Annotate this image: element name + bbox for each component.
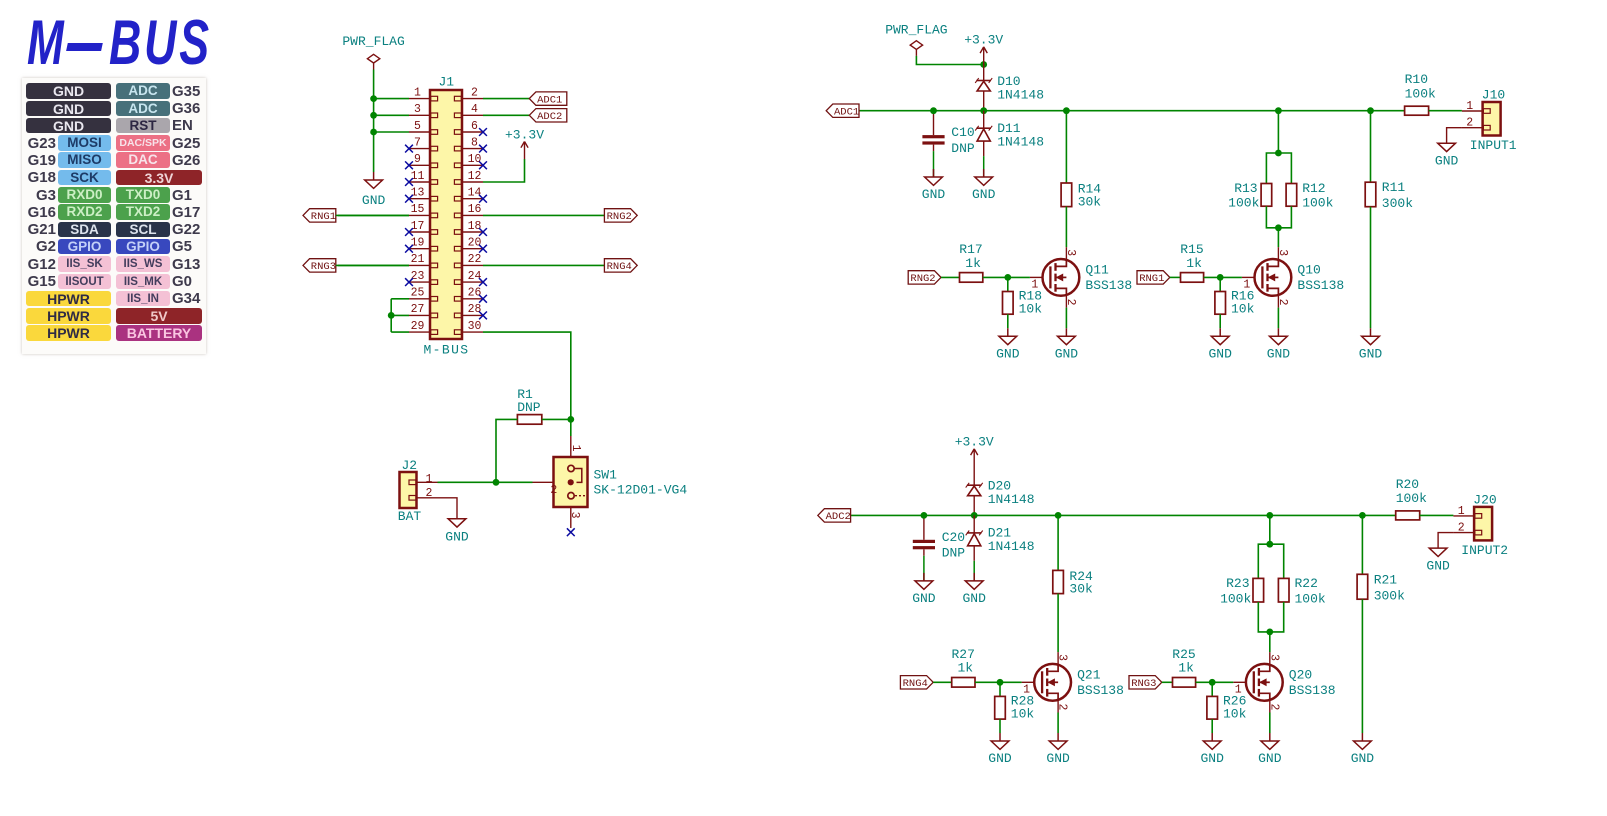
svg-text:8: 8 [471, 136, 478, 149]
power flag PWR_FLAG (ADC1 rail) [885, 22, 947, 56]
svg-text:10k: 10k [1019, 302, 1043, 317]
svg-text:3: 3 [1276, 249, 1289, 256]
transistor Q11 BSS138 [1030, 247, 1132, 307]
J1 pin 23 [409, 270, 438, 285]
resistor R15 1k [1170, 242, 1220, 282]
global label RNG4 [900, 676, 933, 690]
svg-text:GND: GND [1359, 347, 1383, 362]
svg-text:1N4148: 1N4148 [988, 492, 1035, 507]
svg-text:R21: R21 [1374, 572, 1398, 587]
svg-text:+3.3V: +3.3V [955, 434, 994, 449]
ground GND (R11) [1359, 328, 1383, 361]
svg-text:R11: R11 [1382, 180, 1406, 195]
ground GND (Q11 source) [1055, 328, 1079, 361]
svg-text:+3.3V: +3.3V [964, 32, 1003, 47]
wire J1 pin2 to ADC1 label [483, 98, 529, 100]
global label ADC1 [826, 104, 859, 118]
junction R14 top (ADC1) [1063, 107, 1070, 114]
no-connect J1 pin 10 [479, 161, 487, 169]
svg-text:R27: R27 [952, 647, 975, 662]
resistor R23 100k [1220, 544, 1270, 632]
J1 pin 22 [454, 253, 483, 268]
wire Q20 source to GND [1269, 713, 1271, 734]
svg-text:5: 5 [414, 120, 421, 133]
wire J1 pin 15 [338, 214, 409, 216]
svg-text:ADC2: ADC2 [826, 511, 851, 523]
svg-text:18: 18 [468, 220, 482, 233]
svg-text:R17: R17 [959, 242, 982, 257]
wire ADC2 to divider pair [1269, 515, 1271, 544]
svg-text:GND: GND [1426, 559, 1450, 574]
svg-text:DNP: DNP [951, 141, 975, 156]
ground GND (capacitor C20) [912, 573, 936, 606]
svg-text:GND: GND [922, 187, 946, 202]
global label RNG3 (at J1) [303, 259, 336, 273]
svg-text:ADC1: ADC1 [834, 106, 859, 118]
svg-text:BAT: BAT [398, 509, 422, 524]
svg-text:28: 28 [468, 303, 482, 316]
svg-text:30k: 30k [1078, 195, 1102, 210]
wire R1 right to node [542, 418, 571, 420]
wire RNG3 to J1 pin21 [336, 264, 409, 266]
resistor R17 1k [941, 242, 1008, 282]
junction capacitor (ADC1) [930, 107, 937, 114]
junction divider pair top [1266, 541, 1273, 548]
wire J1 pin 27 [391, 314, 409, 316]
svg-text:2: 2 [471, 86, 478, 99]
svg-text:GND: GND [1351, 751, 1375, 766]
svg-text:R15: R15 [1180, 242, 1203, 257]
no-connect J1 pin 14 [479, 195, 487, 203]
diode D21 1N4148 [966, 515, 1035, 581]
svg-text:27: 27 [411, 303, 425, 316]
svg-text:RNG1: RNG1 [311, 211, 336, 223]
connector J10 (INPUT1) [1462, 88, 1517, 154]
global label RNG2 (at J1) [604, 209, 637, 223]
svg-text:10k: 10k [1011, 706, 1035, 721]
svg-text:GND: GND [1435, 154, 1459, 169]
wire J1 pin30 to switch node [483, 332, 571, 419]
J1 pin 11 [409, 170, 438, 185]
svg-text:RNG3: RNG3 [311, 261, 336, 273]
logo M-BUS [0, 0, 260, 80]
svg-text:100k: 100k [1228, 196, 1259, 211]
diode D20 1N4148 [966, 467, 1035, 516]
junction +3.3V node [980, 61, 987, 68]
wire Q11 source to GND [1065, 308, 1067, 329]
transistor Q21 BSS138 [1022, 652, 1124, 712]
junction J1 pin1 rail [370, 95, 377, 102]
svg-text:J2: J2 [402, 458, 418, 473]
svg-text:13: 13 [411, 187, 425, 200]
wire J2 pin2 to GND [438, 498, 458, 519]
svg-text:R10: R10 [1405, 72, 1428, 87]
svg-text:14: 14 [468, 187, 482, 200]
svg-text:GND: GND [1208, 347, 1232, 362]
no-connect J1 pin 23 [405, 278, 413, 286]
svg-text:M-BUS: M-BUS [423, 343, 469, 358]
junction divider pair (ADC2) [1266, 512, 1273, 519]
resistor R13 100k [1228, 153, 1278, 228]
ground GND (R16) [1208, 328, 1232, 361]
svg-text:GND: GND [1055, 347, 1079, 362]
svg-text:1: 1 [569, 445, 582, 452]
svg-text:GND: GND [1258, 751, 1282, 766]
svg-text:23: 23 [411, 270, 425, 283]
J1 pin 14 [454, 187, 483, 202]
wire gate node to Q11 [1008, 276, 1030, 278]
svg-text:R23: R23 [1226, 576, 1249, 591]
J1 pin 25 [409, 287, 438, 302]
svg-text:R12: R12 [1302, 181, 1325, 196]
svg-text:GND: GND [912, 591, 936, 606]
svg-text:INPUT2: INPUT2 [1461, 543, 1508, 558]
J1 pin 21 [409, 253, 438, 268]
resistor R16 10k [1215, 277, 1255, 328]
junction capacitor (ADC2) [921, 512, 928, 519]
svg-text:RNG2: RNG2 [607, 211, 632, 223]
svg-text:+3.3V: +3.3V [505, 128, 544, 143]
wire Q10 source to GND [1277, 308, 1279, 329]
svg-text:GND: GND [445, 529, 469, 544]
wire RNG1 to J1 pin15 [336, 214, 409, 216]
J1 pin 6 [454, 120, 483, 135]
switch SW1 SK-12D01-VG4 [533, 436, 688, 528]
J1 pin 5 [409, 120, 438, 135]
ground GND (Q21 source) [1046, 733, 1070, 766]
no-connect J1 pin 19 [405, 245, 413, 253]
svg-text:C10: C10 [951, 125, 974, 140]
wire J1 pin12 to +3.3V [483, 159, 525, 182]
ground GND (J10) [1435, 143, 1459, 168]
J1 pin 13 [409, 187, 438, 202]
svg-text:RNG3: RNG3 [1131, 678, 1156, 690]
no-connect J1 pin 24 [479, 278, 487, 286]
wire J20 pin2 to GND [1438, 533, 1453, 549]
svg-text:2: 2 [1276, 299, 1289, 306]
svg-text:R13: R13 [1234, 181, 1257, 196]
svg-text:29: 29 [411, 320, 425, 333]
svg-text:GND: GND [962, 591, 986, 606]
svg-text:RNG2: RNG2 [910, 273, 935, 285]
wire R10 to J10 pin1 [1429, 110, 1462, 112]
svg-text:100k: 100k [1405, 87, 1436, 102]
svg-text:1k: 1k [1178, 661, 1194, 676]
global label ADC2 [818, 509, 851, 523]
svg-text:INPUT1: INPUT1 [1470, 138, 1517, 153]
svg-text:10k: 10k [1231, 302, 1255, 317]
global label RNG4 (at J1) [604, 259, 637, 273]
J1 pin 1 [409, 86, 438, 101]
junction divider pair top [1275, 150, 1282, 157]
svg-text:11: 11 [411, 170, 425, 183]
J1 pin 9 [409, 153, 438, 168]
ground GND (R18) [996, 328, 1020, 361]
svg-text:2: 2 [1458, 522, 1465, 535]
wire J1 pin 5 [374, 131, 409, 133]
pinout legend card (photo) [22, 78, 206, 354]
wire J1 pin 1 [374, 98, 409, 100]
resistor R21 300k [1357, 515, 1405, 733]
junction switch node [567, 416, 574, 423]
global label ADC2 (at J1) [529, 109, 567, 123]
no-connect J1 pin 17 [405, 228, 413, 236]
svg-text:9: 9 [414, 153, 421, 166]
power +3.3V (ADC1 clamp) [964, 32, 1003, 64]
no-connect J1 pin 9 [405, 161, 413, 169]
resistor R25 1k [1162, 647, 1212, 687]
svg-text:100k: 100k [1220, 591, 1251, 606]
svg-text:R22: R22 [1295, 576, 1318, 591]
svg-text:1: 1 [1458, 505, 1465, 518]
svg-text:1: 1 [426, 473, 433, 486]
transistor Q20 BSS138 [1233, 652, 1335, 712]
diode D11 1N4148 [975, 111, 1044, 177]
svg-text:BSS138: BSS138 [1297, 278, 1344, 293]
power flag PWR_FLAG (J1 area) [342, 34, 404, 69]
svg-text:1k: 1k [965, 256, 981, 271]
connector J2 (BAT) [398, 458, 438, 524]
ground GND (R21) [1351, 733, 1375, 766]
svg-text:GND: GND [1267, 347, 1291, 362]
junction divider pair (ADC1) [1275, 107, 1282, 114]
svg-text:RNG4: RNG4 [607, 261, 632, 273]
wire J1 pin16 to RNG2 label [483, 214, 604, 216]
svg-text:26: 26 [468, 287, 482, 300]
junction R21 (ADC2) [1359, 512, 1366, 519]
no-connect SW1 pin3 [567, 528, 575, 536]
svg-text:C20: C20 [942, 530, 965, 545]
svg-text:BSS138: BSS138 [1289, 683, 1336, 698]
svg-text:Q21: Q21 [1077, 668, 1101, 683]
svg-text:PWR_FLAG: PWR_FLAG [885, 22, 947, 37]
svg-text:2: 2 [1267, 704, 1280, 711]
ground GND (capacitor C10) [922, 169, 946, 202]
wire J10 pin2 to GND [1447, 128, 1462, 144]
J1 pin 26 [454, 287, 483, 302]
wire R1 left down to battery line [496, 419, 517, 482]
wire J1 pins 25-27-29 tie [390, 299, 392, 332]
svg-text:2: 2 [1064, 299, 1077, 306]
ground GND (diode D11) [972, 169, 996, 202]
power +3.3V (ADC2 clamp) [955, 434, 994, 466]
svg-text:DNP: DNP [517, 400, 541, 415]
wire divider pair to Q10 drain [1277, 228, 1279, 247]
svg-text:2: 2 [1056, 704, 1069, 711]
svg-text:2: 2 [426, 487, 433, 500]
svg-text:4: 4 [471, 103, 478, 116]
ground GND (diode D21) [962, 573, 986, 606]
J1 pin 20 [454, 237, 483, 252]
svg-text:ADC2: ADC2 [537, 111, 562, 123]
J1 pin 28 [454, 303, 483, 318]
J1 pin 19 [409, 237, 438, 252]
J1 pin 24 [454, 270, 483, 285]
svg-text:24: 24 [468, 270, 482, 283]
svg-text:Q10: Q10 [1297, 263, 1320, 278]
wire Q21 source to GND [1057, 713, 1059, 734]
svg-text:RNG4: RNG4 [903, 678, 928, 690]
wire gate node to Q20 [1212, 681, 1233, 683]
junction J1 pin27 tie [388, 312, 395, 319]
J1 pin 29 [409, 320, 438, 335]
junction diode column (ADC2) [971, 512, 978, 519]
svg-text:100k: 100k [1302, 196, 1333, 211]
svg-text:1N4148: 1N4148 [997, 134, 1044, 149]
junction gate node Q21 [997, 679, 1004, 686]
J1 pin 17 [409, 220, 438, 235]
svg-text:GND: GND [988, 751, 1012, 766]
wire node down to SW1 pin1 [570, 419, 572, 436]
svg-text:19: 19 [411, 237, 425, 250]
svg-text:J10: J10 [1482, 88, 1505, 103]
resistor R27 1k [933, 647, 1000, 687]
no-connect J1 pin 11 [405, 178, 413, 186]
svg-text:3: 3 [414, 103, 421, 116]
no-connect J1 pin 28 [479, 312, 487, 320]
J1 pin 30 [454, 320, 483, 335]
wire J2 pin1 to SW1 pin2 [438, 481, 533, 483]
svg-text:25: 25 [411, 287, 425, 300]
svg-text:J20: J20 [1473, 492, 1496, 507]
svg-text:GND: GND [362, 193, 386, 208]
connector J1 (M-BUS header) body [423, 75, 469, 358]
svg-text:12: 12 [468, 170, 482, 183]
no-connect J1 pin 13 [405, 195, 413, 203]
resistor R18 10k [1003, 277, 1043, 328]
ground GND (R26) [1200, 733, 1224, 766]
svg-text:Q11: Q11 [1085, 263, 1109, 278]
resistor R11 300k [1365, 111, 1413, 329]
wire PWR_FLAG vertical rail [373, 70, 375, 173]
no-connect J1 pin 20 [479, 245, 487, 253]
no-connect J1 pin 6 [479, 128, 487, 136]
wire J1 pin 3 [374, 114, 409, 116]
svg-text:1: 1 [1466, 100, 1473, 113]
junction diode column (ADC1) [980, 107, 987, 114]
diode D10 1N4148 [975, 65, 1044, 111]
svg-text:J1: J1 [439, 75, 455, 90]
svg-text:7: 7 [414, 136, 421, 149]
ground GND (Q20 source) [1258, 733, 1282, 766]
wire PWR_FLAG to +3.3V node [916, 56, 983, 65]
wire J1 pin22 to RNG4 label [483, 264, 604, 266]
J1 pin 4 [454, 103, 483, 118]
J1 pin 7 [409, 136, 438, 151]
ground GND (R28) [988, 733, 1012, 766]
global label RNG1 [1137, 271, 1170, 285]
svg-text:300k: 300k [1382, 196, 1413, 211]
junction gate node Q11 [1004, 274, 1011, 281]
svg-text:300k: 300k [1374, 588, 1405, 603]
junction gate node Q20 [1209, 679, 1216, 686]
svg-text:ADC1: ADC1 [537, 94, 562, 106]
svg-text:3: 3 [568, 512, 581, 519]
svg-text:20: 20 [468, 237, 482, 250]
J1 pin 8 [454, 136, 483, 151]
wire gate node to Q10 [1220, 276, 1242, 278]
resistor R22 100k [1270, 544, 1326, 632]
global label RNG2 [908, 271, 941, 285]
ground GND (J20) [1426, 548, 1450, 573]
svg-text:R25: R25 [1172, 647, 1195, 662]
J1 pin 2 [454, 86, 483, 101]
J1 pin 3 [409, 103, 438, 118]
resistor R1 (DNP) [517, 387, 542, 424]
capacitor C10 DNP [922, 111, 975, 177]
svg-text:2: 2 [1466, 117, 1473, 130]
junction R24 top (ADC2) [1055, 512, 1062, 519]
power +3.3V (at J1) [505, 128, 544, 160]
svg-text:BSS138: BSS138 [1077, 683, 1124, 698]
wire R20 to J20 pin1 [1420, 514, 1454, 516]
wire ADC1 to divider pair [1277, 111, 1279, 153]
junction divider pair bottom [1275, 224, 1282, 231]
junction J1 pin5 rail [370, 129, 377, 136]
svg-text:3: 3 [1064, 249, 1077, 256]
resistor R10 100k [1405, 72, 1436, 115]
J1 pin 16 [454, 203, 483, 218]
resistor R20 100k [1396, 477, 1427, 520]
svg-text:Q20: Q20 [1289, 668, 1312, 683]
svg-text:10k: 10k [1223, 706, 1247, 721]
svg-text:100k: 100k [1295, 591, 1326, 606]
J1 pin 12 [454, 170, 483, 185]
svg-text:1N4148: 1N4148 [997, 87, 1044, 102]
junction J1 pin3 rail [370, 112, 377, 119]
svg-text:16: 16 [468, 203, 482, 216]
J1 pin 10 [454, 153, 483, 168]
svg-text:30: 30 [468, 320, 482, 333]
wire J1 pin 21 [338, 264, 409, 266]
svg-text:GND: GND [1200, 751, 1224, 766]
wire ADC2 bus line [850, 514, 1395, 516]
junction divider pair bottom [1266, 629, 1273, 636]
wire J1 pin4 to ADC2 label [483, 114, 529, 116]
ground GND (below PWR_FLAG) [362, 172, 386, 208]
svg-text:GND: GND [996, 347, 1020, 362]
svg-text:SK-12D01-VG4: SK-12D01-VG4 [594, 483, 688, 498]
transistor Q10 BSS138 [1242, 247, 1344, 307]
global label ADC1 (at J1) [529, 92, 567, 106]
J1 pin 15 [409, 203, 438, 218]
wire J1 pin 25 [391, 298, 409, 300]
wire ADC1 bus line [859, 110, 1405, 112]
svg-text:1N4148: 1N4148 [988, 539, 1035, 554]
capacitor C20 DNP [913, 515, 966, 581]
svg-text:PWR_FLAG: PWR_FLAG [342, 34, 404, 49]
svg-text:21: 21 [411, 253, 425, 266]
svg-text:DNP: DNP [942, 546, 966, 561]
svg-text:22: 22 [468, 253, 482, 266]
svg-text:2: 2 [550, 484, 557, 497]
wire divider pair to Q20 drain [1269, 632, 1271, 652]
resistor R26 10k [1207, 682, 1247, 733]
ground GND (J2) [445, 519, 469, 545]
junction R11 (ADC1) [1367, 107, 1374, 114]
svg-text:RNG1: RNG1 [1139, 273, 1164, 285]
resistor R12 100k [1278, 153, 1333, 228]
svg-text:1: 1 [414, 86, 421, 99]
no-connect J1 pin 8 [479, 145, 487, 153]
svg-text:100k: 100k [1396, 491, 1427, 506]
svg-text:1k: 1k [1186, 256, 1202, 271]
svg-text:10: 10 [468, 153, 482, 166]
svg-text:3: 3 [1267, 654, 1280, 661]
svg-text:GND: GND [972, 187, 996, 202]
svg-text:GND: GND [1046, 751, 1070, 766]
resistor R14 30k [1061, 111, 1101, 248]
